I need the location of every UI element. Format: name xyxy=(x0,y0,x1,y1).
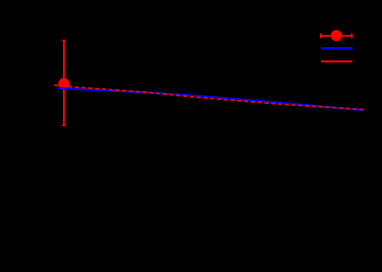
red dashed theory line xyxy=(54,85,363,109)
data point error bar vertical xyxy=(63,40,65,125)
legend entry 3: red line xyxy=(321,60,352,62)
error bar top cap xyxy=(62,39,66,41)
data point marker xyxy=(58,78,69,89)
legend entry 1: marker with horizontal error bar xyxy=(321,35,352,37)
blue fit line xyxy=(57,88,363,110)
error bar bottom cap xyxy=(62,125,66,127)
legend entry 2: blue line xyxy=(321,47,352,50)
